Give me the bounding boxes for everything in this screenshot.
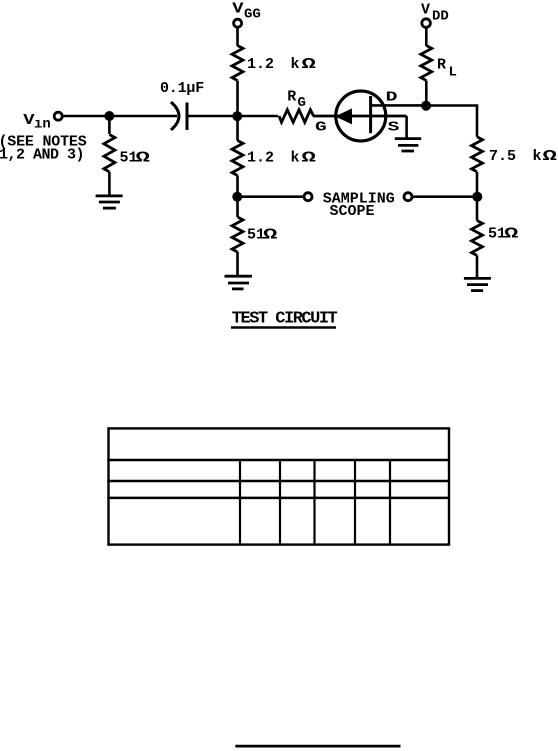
table column line 5 xyxy=(389,460,391,545)
svg-text:L: L xyxy=(449,64,457,80)
svg-text:1,2 AND 3): 1,2 AND 3) xyxy=(0,147,84,164)
node junction dot gate rail xyxy=(232,111,242,121)
svg-text:V: V xyxy=(421,2,430,19)
resistor 51 ohm (middle) xyxy=(232,217,243,252)
svg-text:Ω: Ω xyxy=(136,149,150,166)
node Vin label xyxy=(23,113,51,133)
value 51 ohm (input) xyxy=(120,149,150,166)
wire right scope terminal to output node xyxy=(413,195,477,198)
wire VDD to RL xyxy=(425,28,428,47)
svg-text:TEST CIRCUIT: TEST CIRCUIT xyxy=(232,310,338,329)
node VGG label xyxy=(232,1,261,22)
value 1.2 kohm lower xyxy=(247,150,316,167)
wire resistor to scope node xyxy=(236,176,239,197)
value 1.2 kohm upper xyxy=(247,56,316,73)
svg-text:Ω: Ω xyxy=(263,227,277,244)
svg-text:1.2: 1.2 xyxy=(247,56,274,73)
terminal VDD xyxy=(422,19,431,28)
wire drain lead xyxy=(371,104,427,107)
svg-text:V: V xyxy=(232,1,244,18)
table header bottom line xyxy=(107,459,449,461)
svg-text:R: R xyxy=(287,89,296,106)
svg-text:0.1µF: 0.1µF xyxy=(160,80,204,97)
svg-text:1.2: 1.2 xyxy=(247,150,274,167)
terminal Vin xyxy=(54,112,62,120)
value 51 ohm (middle) xyxy=(247,227,277,244)
svg-text:7.5: 7.5 xyxy=(489,148,516,165)
ground (middle) xyxy=(225,276,252,289)
wire gate line xyxy=(313,115,407,118)
capacitor C straight plate xyxy=(186,103,189,131)
svg-text:Ω: Ω xyxy=(504,226,518,243)
svg-text:k: k xyxy=(291,56,300,73)
transistor Q1 gate arrow xyxy=(335,108,352,124)
table row line 3 xyxy=(107,497,449,500)
wire Vin to capacitor xyxy=(64,115,178,118)
wire source lead down xyxy=(405,116,408,139)
ground (source) xyxy=(395,139,421,151)
svg-text:k: k xyxy=(291,150,300,167)
table column line 1 xyxy=(239,460,241,545)
table column line 3 xyxy=(313,460,315,545)
table column line 4 xyxy=(354,460,356,545)
svg-text:R: R xyxy=(437,57,446,74)
node drain junction dot xyxy=(421,101,431,111)
wire middle node down xyxy=(236,116,239,141)
wire scope node to 51 ohm (middle) xyxy=(236,197,239,217)
value 51 ohm (output) xyxy=(488,226,518,243)
label RG xyxy=(287,89,306,112)
svg-text:SCOPE: SCOPE xyxy=(330,203,375,220)
svg-text:S: S xyxy=(388,120,400,136)
label RL xyxy=(437,57,457,81)
svg-text:Ω: Ω xyxy=(302,56,316,73)
svg-text:GG: GG xyxy=(244,6,261,22)
wire VGG to resistor xyxy=(236,28,239,47)
title underline xyxy=(231,326,336,329)
wire resistor to ground xyxy=(108,172,111,195)
node VDD label xyxy=(421,2,449,25)
ground (output) xyxy=(464,278,491,290)
ground (input) xyxy=(96,196,123,208)
wire 51 ohm to ground xyxy=(476,256,479,279)
svg-text:G: G xyxy=(298,95,306,111)
capacitor C curved plate xyxy=(171,102,179,130)
transistor Q1 channel bar xyxy=(369,96,372,133)
svg-text:Ω: Ω xyxy=(543,148,557,165)
resistor 51 ohm (output) xyxy=(472,221,483,256)
wire RL to drain node xyxy=(425,81,428,106)
svg-text:ın: ın xyxy=(34,117,51,133)
table row line 2 xyxy=(107,480,449,483)
terminal sampling scope right xyxy=(404,193,412,201)
resistor 51 ohm (input) xyxy=(104,135,115,172)
transistor Q1 circle xyxy=(336,91,386,141)
svg-text:D: D xyxy=(386,90,398,106)
wire drain node to right branch xyxy=(426,106,477,137)
value 7.5 kohm xyxy=(489,148,557,165)
svg-text:Ω: Ω xyxy=(302,150,316,167)
terminal sampling scope left xyxy=(304,193,312,201)
table column line 2 xyxy=(279,460,281,545)
node output junction dot xyxy=(472,192,482,202)
resistor RG xyxy=(279,110,314,123)
resistor 1.2k upper xyxy=(232,46,243,81)
svg-text:G: G xyxy=(315,120,327,136)
node scope junction dot xyxy=(232,192,242,202)
resistor 7.5k xyxy=(472,137,483,172)
table outer border xyxy=(109,428,450,544)
svg-text:k: k xyxy=(533,148,542,165)
terminal VGG xyxy=(234,19,242,27)
bottom rule xyxy=(235,745,400,748)
node junction dot at Vin/51ohm xyxy=(104,111,114,121)
wire resistor to node xyxy=(236,81,239,117)
wire junction to resistor xyxy=(108,116,111,134)
wire output node to 51 ohm xyxy=(476,197,479,221)
wire 51 ohm to ground (middle) xyxy=(236,252,239,276)
label SAMPLING SCOPE xyxy=(323,191,395,221)
resistor RL xyxy=(421,46,432,81)
wire capacitor to gate rail xyxy=(187,115,278,118)
wire scope node to left scope terminal xyxy=(238,195,303,198)
resistor 1.2k lower xyxy=(232,141,243,176)
note text xyxy=(0,133,87,163)
svg-text:DD: DD xyxy=(432,9,449,25)
wire 7.5k to output node xyxy=(476,172,479,197)
